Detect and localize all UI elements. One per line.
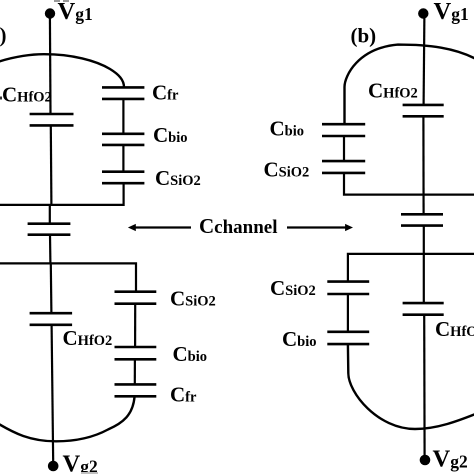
wire node1 (a) horizontal with corner up right branch [0, 183, 124, 205]
terminal Vg1 (b) dot [418, 8, 428, 18]
wire: CHfO2 upper (b) to Cchannel (b) [422, 116, 424, 214]
wire: node2(a) to lower CHfO2 (a) [50, 263, 53, 313]
wire: CHfO2 lower (b) to Vg2 (b) [423, 315, 426, 458]
wire: Vg1(a) to upper CHfO2 top plate [49, 14, 52, 114]
svg-text:Cchannel: Cchannel [199, 214, 278, 238]
capacitor Cfr (a top) [102, 87, 144, 99]
capacitor Cfr (a bottom) [115, 384, 157, 396]
wire: Cbio to CSiO2 (b upper-left) [343, 136, 345, 161]
wire node1 (b): left branch corner to right edge [344, 173, 474, 195]
wire: Cfr to Cbio (a top) [122, 99, 124, 134]
wire: node1(a) to Cchannel top plate [49, 205, 51, 224]
arrow left to Cchannel label [133, 226, 191, 228]
capacitor CSiO2 (a top) [102, 172, 144, 184]
terminal Vg2 (a) dot [48, 461, 59, 472]
wire arc (b) top: left branch over to right edge [345, 45, 474, 125]
wire: Cbio to CSiO2 (a top) [122, 145, 124, 172]
capacitor CHfO2 lower (a) [30, 313, 73, 325]
capacitor Cbio (b upper-left) [322, 124, 365, 136]
wire arc (b) bottom: left branch to right edge [348, 344, 474, 429]
capacitor Cbio (b lower-left) [327, 332, 369, 344]
capacitor CSiO2 (a bottom) [115, 292, 157, 304]
wire: CHfO2 lower (a) to Vg2(a) [52, 325, 54, 463]
capacitor CHfO2 upper (a) [30, 114, 74, 125]
svg-text:(b): (b) [351, 24, 377, 48]
capacitor Cbio (a top) [102, 134, 144, 145]
cut-off glyph nub left edge [0, 97, 2, 100]
capacitor Cchannel (a) [28, 224, 71, 235]
wire arc (a) top: left edge to Cfr top plate [0, 54, 124, 87]
terminal Vg2 (b) dot [420, 455, 431, 466]
arrow right from Cchannel label [287, 226, 346, 228]
capacitor Cbio (a bottom) [115, 347, 157, 359]
terminal Vg1 (a) dot [45, 8, 55, 18]
capacitor CSiO2 (b lower-left) [327, 282, 369, 294]
wire: Cchannel (b) to lower CHfO2 (b) [423, 226, 425, 304]
capacitor CHfO2 lower (b) [403, 303, 444, 315]
svg-text:Vg1: Vg1 [434, 0, 469, 25]
capacitor Cchannel (b) [401, 214, 443, 225]
wire: CSiO2 to Cbio (b lower-left) [347, 294, 349, 332]
wire: Vg1(b) to upper CHfO2 (b) [423, 14, 426, 105]
wire: CHfO2 upper (a) to node1(a) [50, 125, 53, 205]
wire: Cbio to Cfr (a bottom) [134, 359, 136, 384]
svg-text:(a): (a) [0, 23, 7, 47]
capacitor CHfO2 upper (b) [403, 105, 444, 116]
svg-text:Vg1: Vg1 [58, 0, 93, 25]
capacitor CSiO2 (b upper-left) [322, 161, 365, 173]
wire: CSiO2 to Cbio (a bottom) [134, 304, 136, 347]
crop remnant mark bottom [81, 472, 98, 474]
wire node2 (a) horizontal with corner down right branch [0, 263, 136, 291]
wire: Cchannel (a) to node2(a) [49, 235, 52, 264]
wire arc (a) bottom: Cfr bottom plate to left edge [0, 396, 135, 441]
wire node2 (b): corner down left branch to right edge [348, 254, 474, 282]
crop remnant marks top [54, 0, 60, 2]
